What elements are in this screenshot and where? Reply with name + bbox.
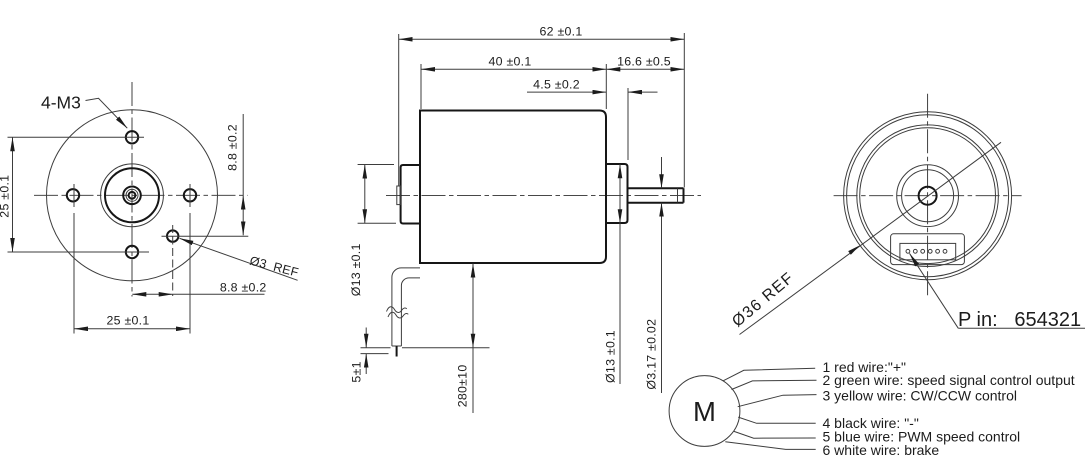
dim 8.8 horizontal [132,293,152,295]
horizontal centerline [34,194,248,196]
svg-text:62 ±0.1: 62 ±0.1 [540,25,583,39]
dim 4.5 extension [627,88,629,160]
label O3 REF [180,238,298,280]
pin underline [958,327,1085,329]
dim O13 front [619,164,621,223]
right hole axis [189,184,191,207]
svg-text:8.8 ±0.2: 8.8 ±0.2 [226,124,240,171]
dim 16.6 [606,68,684,70]
vertical centerline [927,94,929,298]
rear circle 2 [847,115,1009,277]
dim 62 extension left [398,34,400,186]
wire tip [396,346,398,357]
connector outer [891,234,965,265]
svg-text:P in: 654321: P in: 654321 [958,309,1081,331]
rear circle 4 [860,128,996,264]
wire lead 5 [734,431,816,438]
dim 25 vertical [12,137,14,252]
front face outer circle [47,110,218,281]
shaft [628,187,684,189]
O36 leader [740,142,1002,334]
bottom hole extension [8,251,150,253]
svg-text:25 ±0.1: 25 ±0.1 [107,314,150,328]
svg-text:Ø3.17 ±0.02: Ø3.17 ±0.02 [645,319,659,390]
rear circle 3 [857,125,999,267]
connector pins [906,249,910,253]
dim O3.17 [661,157,663,188]
dim O13 rear [364,165,366,224]
wire pipe outer [392,268,420,346]
vertical centerline [131,82,133,297]
dim 40 [421,68,606,70]
svg-text:25 ±0.1: 25 ±0.1 [0,175,12,218]
dim 5 extensions [361,347,391,349]
front boss [606,164,628,223]
dim 280 [472,264,474,348]
svg-text:4.5 ±0.2: 4.5 ±0.2 [533,77,580,91]
dim 4.5 [527,91,606,93]
wire break mark upper [387,307,407,313]
wire lead 2 [732,380,817,389]
svg-text:Ø13 ±0.1: Ø13 ±0.1 [349,243,363,296]
svg-text:4-M3: 4-M3 [41,93,81,113]
dim 8.8 vertical [242,114,244,196]
wire break mark lower [388,312,408,318]
dim 62 [399,38,685,40]
mounting hole right [184,189,196,201]
svg-text:Ø13 ±0.1: Ø13 ±0.1 [604,330,618,383]
dim O13 rear extensions [358,164,394,166]
centerline [386,194,701,196]
pin leader [910,253,959,328]
rear shaft circle [919,187,937,205]
hub center ring [129,192,136,199]
svg-text:8.8 ±0.2: 8.8 ±0.2 [220,281,267,295]
hub outer ring [101,164,164,227]
dim 40/16.6 shared extension [605,64,607,109]
wire lead 4 [738,417,816,423]
hub middle ring [123,187,141,205]
svg-text:3 yellow wire: CW/CCW control: 3 yellow wire: CW/CCW control [823,388,1017,404]
svg-text:5±1: 5±1 [350,361,364,382]
dim 280 bottom extension [402,347,490,349]
mounting hole left [67,189,79,201]
shaft chamfer [677,189,679,203]
pilot hole vertical axis [172,225,174,296]
svg-text:16.6 ±0.5: 16.6 ±0.5 [617,55,671,69]
dim 62/16.6 extension right [683,33,685,188]
wire lead 3 [738,395,817,407]
wire pipe inner [401,278,420,346]
hub inner ring [126,189,138,201]
horizontal centerline [834,195,1022,197]
svg-text:280±10: 280±10 [456,365,470,408]
svg-text:M: M [693,396,716,427]
dim 25 horizontal [74,328,190,330]
dim 40 extension left [420,64,422,109]
O36 arrowhead [848,245,860,255]
rear outer circle [844,112,1012,280]
top hole extension [8,136,145,138]
mounting hole bottom [126,246,138,258]
svg-text:2 green wire: speed signal con: 2 green wire: speed signal control outpu… [823,372,1075,388]
wire pipe end [392,345,402,347]
hub thick ring [105,168,159,222]
svg-text:40 ±0.1: 40 ±0.1 [489,55,532,69]
motor symbol circle [669,376,740,447]
dim 5 [365,328,367,348]
wire lead 6 [725,442,815,450]
mounting hole top [126,131,138,143]
pilot hole O3 [167,230,178,241]
left hole axis [73,184,75,207]
rear hub outer [897,165,959,227]
pilot hole horizontal axis [162,235,249,237]
rear cover [401,165,420,224]
connector inner [900,243,956,259]
rear hub inner [902,170,954,222]
wire lead 1 [723,368,815,381]
svg-text:6 white wire: brake: 6 white wire: brake [823,442,940,458]
rear tab [397,186,401,205]
motor body [420,111,606,264]
